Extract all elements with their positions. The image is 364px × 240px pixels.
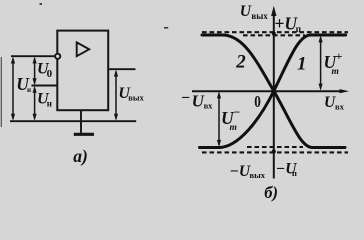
- svg-text:U: U: [240, 3, 252, 20]
- axis Uвых (vertical): [273, 14, 275, 179]
- node: axis crossing -Uп: [272, 150, 276, 154]
- svg-text:вх: вх: [204, 101, 214, 111]
- svg-text:вых: вых: [128, 93, 144, 103]
- svg-text:0: 0: [47, 68, 53, 80]
- svg-text:н: н: [47, 98, 52, 108]
- node: origin junction: [272, 89, 276, 93]
- dashed line -Uп level: [202, 151, 348, 153]
- svg-text:2: 2: [235, 52, 246, 73]
- svg-text:0: 0: [254, 92, 261, 111]
- wire: lower input stub: [32, 85, 58, 87]
- dashed guide at Um- level (center gap): [247, 146, 303, 148]
- measure arrow Um+: [319, 35, 323, 90]
- dashed line +Uп level: [202, 31, 348, 33]
- svg-text:а): а): [73, 146, 88, 166]
- svg-text:вых: вых: [250, 170, 266, 180]
- scan artifact: dot top-left: [40, 3, 43, 5]
- inverting input terminal circle: [55, 54, 60, 59]
- svg-text:m: m: [230, 123, 237, 133]
- svg-text:п: п: [296, 25, 302, 35]
- svg-text:−: −: [234, 105, 241, 119]
- ground: [74, 133, 94, 136]
- voltage arrow Uвых (output): [114, 70, 118, 121]
- svg-text:вых: вых: [251, 11, 268, 21]
- svg-text:вх: вх: [335, 102, 345, 112]
- node: axis crossing +Uп: [272, 32, 276, 36]
- curve 1 (non-inverting characteristic): [200, 35, 346, 148]
- scan artifact: left page edge line: [1, 57, 2, 127]
- svg-text:б): б): [264, 183, 278, 202]
- curve 2 (inverting characteristic): [202, 35, 345, 148]
- wire: bottom common rail: [10, 120, 136, 122]
- wire: ground stub from box bottom: [80, 110, 82, 134]
- op-amp U1 triangle symbol: [77, 42, 90, 56]
- wire: top input to circle: [11, 55, 54, 57]
- scan artifact: dash between panels: [164, 27, 168, 29]
- svg-text:m: m: [332, 67, 339, 77]
- voltage arrow U0 (differential input): [33, 57, 37, 86]
- voltage arrow Uи (input source): [11, 57, 15, 121]
- svg-text:1: 1: [297, 54, 307, 75]
- svg-text:и: и: [27, 86, 31, 94]
- axis Uвх (horizontal): [192, 90, 344, 92]
- svg-text:+: +: [336, 49, 343, 63]
- measure arrow Um-: [217, 91, 221, 146]
- svg-text:п: п: [292, 168, 297, 178]
- op-amp U1 body (rectangle): [57, 31, 108, 111]
- dashed guide at Um+ level (center gap): [243, 34, 305, 36]
- svg-text:−: −: [181, 90, 190, 107]
- voltage arrow Uн: [33, 86, 37, 121]
- svg-text:−U: −U: [230, 163, 251, 180]
- wire: output stub: [108, 68, 135, 70]
